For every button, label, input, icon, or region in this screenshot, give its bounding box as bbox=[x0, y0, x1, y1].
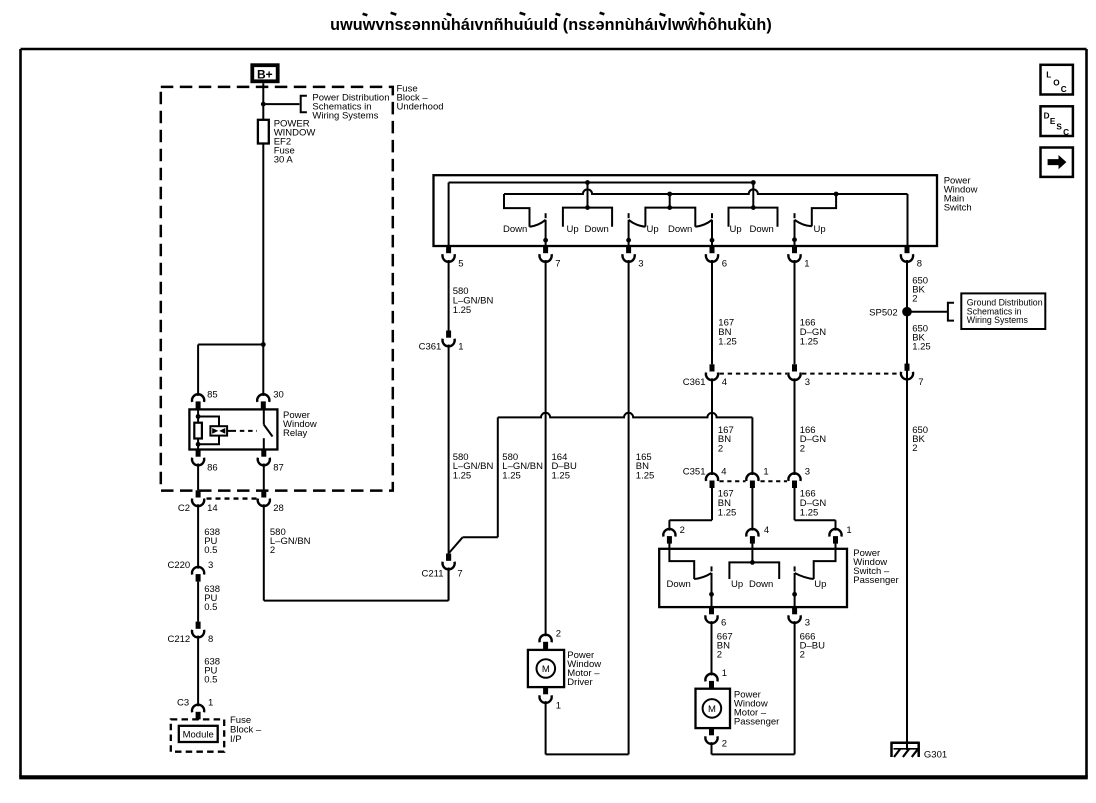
svg-text:Down: Down bbox=[749, 579, 773, 590]
svg-text:C361: C361 bbox=[419, 341, 442, 352]
svg-text:Switch: Switch bbox=[944, 203, 972, 214]
svg-text:3: 3 bbox=[208, 560, 213, 571]
svg-text:8: 8 bbox=[917, 259, 922, 270]
svg-text:1.25: 1.25 bbox=[718, 336, 737, 347]
svg-text:3: 3 bbox=[805, 617, 810, 628]
svg-text:2: 2 bbox=[270, 545, 275, 556]
svg-text:Driver: Driver bbox=[567, 677, 592, 688]
svg-text:1.25: 1.25 bbox=[502, 471, 521, 482]
svg-text:6: 6 bbox=[721, 617, 726, 628]
svg-text:Down: Down bbox=[667, 579, 691, 590]
svg-text:SP502: SP502 bbox=[869, 307, 898, 318]
svg-text:L–GN/BN: L–GN/BN bbox=[270, 536, 311, 547]
svg-text:86: 86 bbox=[207, 463, 218, 474]
svg-text:Down: Down bbox=[750, 224, 774, 235]
svg-text:Up: Up bbox=[731, 579, 743, 590]
svg-text:Up: Up bbox=[567, 224, 579, 235]
svg-text:2: 2 bbox=[800, 444, 805, 455]
svg-text:1: 1 bbox=[722, 668, 727, 679]
svg-text:M: M bbox=[542, 664, 550, 675]
svg-text:1: 1 bbox=[208, 698, 213, 709]
svg-text:1: 1 bbox=[458, 341, 463, 352]
svg-text:1: 1 bbox=[763, 466, 768, 477]
svg-text:1.25: 1.25 bbox=[718, 507, 737, 518]
svg-text:E: E bbox=[1050, 117, 1056, 126]
svg-text:2: 2 bbox=[912, 293, 917, 304]
svg-text:M: M bbox=[708, 704, 716, 715]
svg-text:2: 2 bbox=[800, 649, 805, 660]
svg-text:C361: C361 bbox=[683, 377, 706, 388]
svg-text:Passenger: Passenger bbox=[853, 575, 898, 586]
svg-text:87: 87 bbox=[273, 463, 284, 474]
svg-text:3: 3 bbox=[638, 259, 643, 270]
svg-text:1: 1 bbox=[556, 701, 561, 712]
svg-text:1.25: 1.25 bbox=[453, 471, 472, 482]
svg-text:85: 85 bbox=[207, 389, 218, 400]
svg-text:C3: C3 bbox=[177, 698, 189, 709]
svg-text:8: 8 bbox=[208, 634, 213, 645]
svg-text:0.5: 0.5 bbox=[204, 545, 217, 556]
svg-text:Underhood: Underhood bbox=[397, 101, 444, 112]
svg-text:7: 7 bbox=[457, 568, 462, 579]
svg-text:1.25: 1.25 bbox=[912, 342, 931, 353]
svg-text:7: 7 bbox=[555, 259, 560, 270]
svg-text:C211: C211 bbox=[421, 568, 443, 579]
svg-text:C212: C212 bbox=[167, 634, 190, 645]
svg-text:Down: Down bbox=[668, 224, 692, 235]
svg-text:Module: Module bbox=[183, 729, 214, 740]
svg-text:S: S bbox=[1056, 123, 1062, 132]
svg-text:2: 2 bbox=[912, 443, 917, 454]
svg-text:Down: Down bbox=[503, 224, 527, 235]
svg-text:2: 2 bbox=[717, 649, 722, 660]
svg-text:C: C bbox=[1061, 85, 1067, 94]
svg-text:4: 4 bbox=[764, 525, 769, 536]
svg-text:Wiring Systems: Wiring Systems bbox=[312, 110, 378, 121]
svg-text:Passenger: Passenger bbox=[734, 716, 779, 727]
svg-text:Up: Up bbox=[730, 224, 742, 235]
svg-text:14: 14 bbox=[207, 503, 218, 514]
svg-text:4: 4 bbox=[722, 377, 727, 388]
svg-text:1: 1 bbox=[804, 259, 809, 270]
svg-text:C220: C220 bbox=[167, 560, 190, 571]
svg-text:3: 3 bbox=[805, 377, 810, 388]
svg-text:5: 5 bbox=[458, 259, 463, 270]
svg-text:3: 3 bbox=[805, 466, 810, 477]
svg-text:1.25: 1.25 bbox=[453, 305, 472, 316]
svg-text:1: 1 bbox=[846, 525, 851, 536]
svg-text:30 A: 30 A bbox=[274, 155, 294, 166]
svg-text:4: 4 bbox=[721, 466, 726, 477]
svg-text:0.5: 0.5 bbox=[204, 602, 217, 613]
svg-text:C351: C351 bbox=[683, 466, 706, 477]
svg-text:D: D bbox=[1044, 112, 1050, 121]
svg-text:L: L bbox=[1046, 71, 1051, 80]
svg-text:6: 6 bbox=[722, 259, 727, 270]
svg-text:1.25: 1.25 bbox=[800, 336, 819, 347]
svg-text:Up: Up bbox=[814, 579, 826, 590]
svg-text:7: 7 bbox=[918, 377, 923, 388]
svg-text:1.25: 1.25 bbox=[800, 507, 819, 518]
svg-text:2: 2 bbox=[718, 444, 723, 455]
svg-text:Up: Up bbox=[647, 224, 659, 235]
svg-text:1.25: 1.25 bbox=[552, 471, 571, 482]
svg-text:G301: G301 bbox=[924, 749, 947, 760]
svg-text:B+: B+ bbox=[257, 67, 273, 81]
svg-text:I/P: I/P bbox=[230, 734, 242, 745]
svg-text:2: 2 bbox=[556, 628, 561, 639]
svg-text:Relay: Relay bbox=[283, 428, 308, 439]
svg-text:2: 2 bbox=[722, 738, 727, 749]
svg-text:Up: Up bbox=[814, 224, 826, 235]
svg-text:0.5: 0.5 bbox=[204, 675, 217, 686]
svg-text:C: C bbox=[1063, 128, 1069, 137]
svg-text:C2: C2 bbox=[178, 503, 190, 514]
svg-text:28: 28 bbox=[273, 503, 284, 514]
svg-text:uwuwvnsɛənnùháıvnñhuúuld (nsɛə: uwuwvnsɛənnùháıvnñhuúuld (nsɛənnùháıvlwŵ… bbox=[330, 16, 772, 34]
svg-text:Wiring Systems: Wiring Systems bbox=[967, 315, 1029, 325]
svg-text:O: O bbox=[1053, 78, 1060, 87]
svg-text:Down: Down bbox=[585, 224, 609, 235]
svg-text:1.25: 1.25 bbox=[636, 471, 655, 482]
svg-text:30: 30 bbox=[273, 389, 284, 400]
svg-text:2: 2 bbox=[680, 525, 685, 536]
